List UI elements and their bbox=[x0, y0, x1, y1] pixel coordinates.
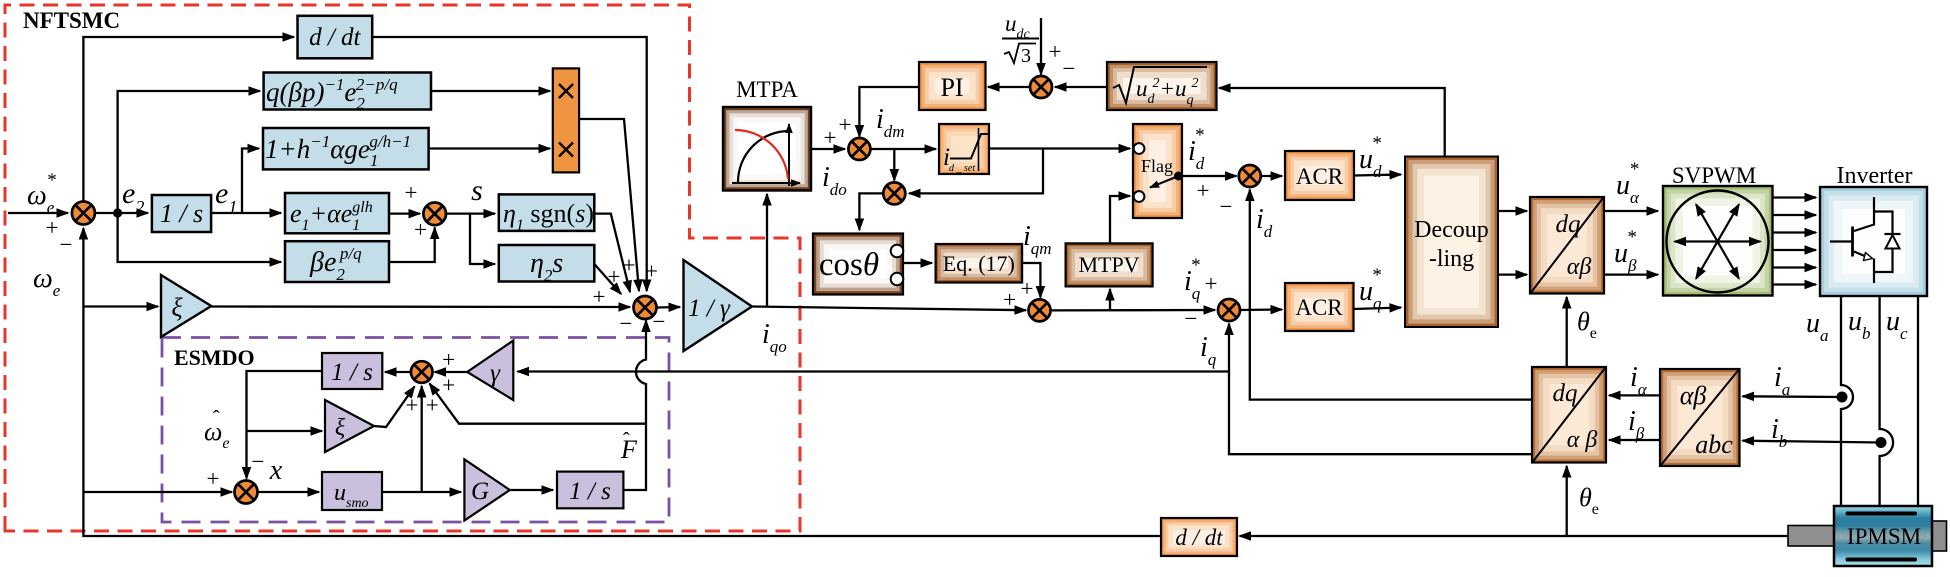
svg-text:ˆ: ˆ bbox=[213, 407, 220, 429]
block dq to alphabeta transform bbox=[1530, 197, 1604, 294]
svg-text:−: − bbox=[620, 311, 633, 336]
svg-text:MTPV: MTPV bbox=[1078, 252, 1139, 277]
svg-text:+: + bbox=[1049, 39, 1062, 64]
multiplier column (orange, two x) bbox=[553, 68, 579, 172]
svg-text:d / dt: d / dt bbox=[309, 24, 361, 51]
block Flag switch bbox=[1133, 124, 1182, 218]
svg-text:α β: α β bbox=[1567, 427, 1598, 453]
wire u_alpha* to SVPWM bbox=[1604, 210, 1658, 212]
SVPWM vector arrows 120deg bbox=[1696, 204, 1739, 278]
svg-text:−: − bbox=[1063, 56, 1076, 81]
wire MTPV output to Flag bottom contact bbox=[1110, 196, 1130, 243]
svg-text:−: − bbox=[1220, 194, 1233, 219]
wire q block output into multiplier bbox=[431, 90, 550, 92]
wire i_d junction to ACR d bbox=[1261, 175, 1282, 177]
svg-text:Flag: Flag bbox=[1141, 156, 1173, 176]
block Inverter bbox=[1820, 187, 1927, 296]
Flag output dot bbox=[1174, 172, 1183, 181]
wire beta block output up into s junction bbox=[389, 228, 435, 263]
svg-text:dq: dq bbox=[1556, 211, 1581, 238]
block IPMSM motor bbox=[1834, 506, 1932, 566]
wire i_qo output of 1/gamma (sloped) bbox=[752, 307, 1026, 311]
wire i_q junction to ACR q bbox=[1240, 308, 1282, 311]
svg-text:+: + bbox=[1205, 271, 1218, 296]
svg-text:+: + bbox=[414, 217, 427, 242]
svg-text:αβ: αβ bbox=[1567, 254, 1592, 280]
wire ESMDO junction output into 1/s bbox=[385, 371, 411, 373]
wire SVPWM gate signal 2 to inverter bbox=[1773, 214, 1817, 216]
summing junction i_q bbox=[1218, 299, 1240, 321]
summing junction x = omega_e - omega_hat bbox=[235, 481, 258, 504]
svg-text:ACR: ACR bbox=[1296, 164, 1344, 189]
wire omega_e* reference input bbox=[8, 212, 68, 214]
block PI bbox=[919, 62, 986, 110]
ESMDO purple dashed region border bbox=[162, 338, 669, 523]
wire theta_e up to lower dq transform bbox=[1566, 466, 1568, 536]
block beta e2^p/q bbox=[285, 241, 389, 282]
wire eta2 output to big summing junction bbox=[594, 264, 621, 294]
svg-text:ACR: ACR bbox=[1295, 295, 1343, 320]
gain xi triangle (NFTSMC, blue) bbox=[161, 275, 211, 337]
big summing junction control law bbox=[634, 296, 657, 319]
wire e1 to e1+alpha e1 block bbox=[211, 212, 281, 214]
block sqrt(ud^2+uq^2) bbox=[1107, 62, 1217, 110]
block d/dt speed derivative bbox=[1161, 518, 1237, 556]
wire F_hat branch into ESMDO junction bbox=[430, 384, 647, 424]
block eta2 s bbox=[499, 245, 595, 282]
inverter IGBT collector lead bbox=[1854, 197, 1874, 231]
wire phase u_b with current sensor bulge bbox=[1880, 296, 1894, 506]
wire e2 up-branch into q(bp) block bbox=[118, 91, 260, 213]
wire e1 block output into s junction bbox=[389, 212, 420, 214]
svg-text:ESMDO: ESMDO bbox=[174, 345, 255, 370]
sqrt 3 denominator bbox=[1004, 44, 1036, 64]
block ACR q-axis bbox=[1285, 283, 1354, 331]
cos theta upper contact circle bbox=[891, 245, 904, 258]
wire speed feedback bottom right segment bbox=[1240, 535, 1789, 537]
SVPWM circle bbox=[1667, 191, 1769, 293]
svg-text:−: − bbox=[1185, 306, 1198, 331]
block cos theta bbox=[813, 234, 903, 295]
block MTPA frame bbox=[723, 107, 811, 191]
IPMSM top bar bbox=[1848, 512, 1916, 516]
multiplier x symbol upper bbox=[559, 84, 573, 98]
MTPA inner horizontal axis bbox=[732, 182, 800, 184]
svg-text:ξ: ξ bbox=[171, 293, 183, 322]
svg-text:+: + bbox=[839, 112, 852, 137]
wire ACR q to decoupling bbox=[1354, 308, 1402, 310]
svg-text:ˆ: ˆ bbox=[623, 429, 630, 451]
svg-text:+: + bbox=[593, 284, 606, 309]
wire MTPA output to i_dm junction bbox=[811, 148, 845, 150]
wire 1+h block output into multiplier bbox=[429, 147, 550, 149]
current sensor dot i_b bbox=[1876, 437, 1887, 448]
gain G triangle bbox=[464, 459, 509, 520]
inverter diode triangle bbox=[1886, 235, 1900, 249]
wire omega_hat branch to xi gain bbox=[247, 430, 323, 432]
wire i_d feedback long bbox=[1250, 190, 1532, 400]
block q(beta p)^-1 e2^(2-p/q) bbox=[264, 73, 431, 110]
wire eta1 output to big summing junction bbox=[594, 214, 630, 292]
svg-text:d / dt: d / dt bbox=[1175, 525, 1223, 550]
wire sqrt output into dc junction bbox=[1055, 86, 1107, 88]
svg-text:NFTSMC: NFTSMC bbox=[23, 8, 120, 33]
svg-text:+: + bbox=[405, 180, 418, 205]
svg-text:Eq. (17): Eq. (17) bbox=[943, 251, 1015, 276]
summing junction i_d bbox=[1239, 165, 1261, 187]
MTPA inner vertical axis bbox=[788, 124, 790, 186]
svg-text:+: + bbox=[46, 215, 59, 240]
SVPWM vector arrows 60deg bbox=[1696, 204, 1739, 278]
wire dc junction into PI bbox=[988, 86, 1030, 88]
IPMSM shaft right bbox=[1932, 521, 1947, 551]
svg-text:x: x bbox=[269, 455, 283, 486]
IPMSM bottom bar bbox=[1848, 558, 1916, 562]
svg-text:αβ: αβ bbox=[1680, 381, 1707, 410]
svg-text:cosθ: cosθ bbox=[819, 247, 879, 283]
wire PI output down into i_dm junction bbox=[859, 87, 919, 137]
multiplier x symbol lower bbox=[559, 143, 573, 157]
block MTPV bbox=[1066, 243, 1153, 286]
wire SVPWM gate signal 1 to inverter bbox=[1773, 196, 1817, 198]
wire xi output to big summing junction bbox=[211, 305, 630, 308]
block eta1 sgn(s) bbox=[499, 194, 595, 231]
wire branch down-left into multiplier junction bbox=[909, 149, 1043, 194]
saturation curve glyph bbox=[950, 134, 988, 159]
wire i_b to alphabeta-abc block bbox=[1743, 441, 1882, 443]
block Eq. (17) bbox=[936, 244, 1023, 283]
svg-text:MTPA: MTPA bbox=[736, 77, 798, 102]
summing junction Js forming sliding surface s bbox=[423, 203, 446, 226]
wire phase u_c bbox=[1917, 296, 1919, 506]
wire xi obs output diagonal into ESMDO junction bbox=[374, 387, 415, 428]
wire F_hat up to big junction with hop over gamma line bbox=[623, 321, 646, 491]
svg-text:+: + bbox=[623, 253, 636, 278]
wire i_qm junction to i_q* junction bbox=[1051, 309, 1216, 312]
wire s to eta1 sgn block bbox=[446, 212, 495, 214]
svg-text:+: + bbox=[1197, 178, 1210, 203]
wire multiplier output to big summing junction bbox=[579, 119, 639, 291]
svg-text:d _ set: d _ set bbox=[949, 163, 975, 174]
wire G output to integrator 1/s bbox=[510, 489, 553, 491]
wire omega_hat from 1/s down to x junction bbox=[247, 371, 323, 479]
block 1+h^-1 alpha g e1^(g/h-1) bbox=[263, 128, 429, 169]
wire d/dt output to big summing junction bbox=[372, 37, 647, 291]
block observer integrator 1/s (bottom) bbox=[557, 472, 623, 509]
wire e1 branch up into 1+h block bbox=[242, 149, 259, 214]
diagonal of measurement dq block bbox=[1533, 368, 1605, 462]
block SVPWM bbox=[1663, 186, 1773, 296]
wire u voltage tap from decoupling to sqrt block bbox=[1219, 88, 1445, 156]
inverter IGBT emitter diagonal bbox=[1854, 252, 1867, 258]
svg-text:1 / s: 1 / s bbox=[331, 359, 373, 386]
wire e2 down-branch into beta e2 block bbox=[118, 213, 281, 262]
svg-text:+: + bbox=[1003, 287, 1016, 312]
saturation axis glyph bbox=[978, 128, 980, 171]
svg-text:+: + bbox=[426, 393, 439, 418]
gain 1/gamma triangle bbox=[684, 260, 753, 351]
Flag switch arm bbox=[1150, 176, 1179, 188]
wire J1 up to d/dt block bbox=[83, 37, 294, 202]
ESMDO summing junction bbox=[411, 361, 433, 383]
wire i_a to alphabeta-abc block bbox=[1743, 395, 1843, 398]
diagonal of dq/alphabeta block bbox=[1531, 198, 1603, 293]
wire SVPWM gate signal 6 to inverter bbox=[1773, 283, 1817, 285]
wire branch up into MTPV bbox=[1109, 289, 1111, 310]
svg-text:Inverter: Inverter bbox=[1837, 163, 1913, 189]
wire i_alpha into dq block bbox=[1609, 394, 1660, 396]
wire i_q feedback into gamma gain bbox=[518, 370, 1230, 372]
cos theta lower contact circle bbox=[891, 273, 904, 286]
svg-text:-ling: -ling bbox=[1429, 246, 1474, 272]
wire i_beta into dq block bbox=[1609, 439, 1660, 441]
inverter IGBT gate lead bbox=[1830, 240, 1853, 242]
inverter IGBT bar bbox=[1851, 227, 1854, 257]
fraction bar of u_dc/sqrt3 bbox=[1002, 38, 1039, 40]
inverter IGBT emitter arrowhead bbox=[1864, 253, 1873, 261]
summing junction dc voltage limit bbox=[1030, 76, 1052, 98]
SVPWM vector arrows horizontal bbox=[1675, 240, 1761, 242]
svg-text:1 / γ: 1 / γ bbox=[688, 295, 731, 322]
wire branch down into multiplier junction bbox=[893, 149, 895, 181]
current sensor dot i_a bbox=[1837, 392, 1848, 403]
block integrator 1/s (NFTSMC) bbox=[152, 195, 211, 232]
wire theta_e up to upper dq transform bbox=[1566, 297, 1568, 369]
Flag top contact circle bbox=[1134, 143, 1145, 154]
wire saturation output to Flag top contact bbox=[989, 147, 1130, 149]
block u_smo bbox=[322, 472, 382, 510]
svg-text:abc: abc bbox=[1695, 430, 1733, 459]
svg-text:+: + bbox=[824, 125, 837, 150]
svg-text:ξ: ξ bbox=[335, 415, 346, 441]
diagonal of alphabeta/abc block bbox=[1661, 370, 1739, 465]
block e1+alpha e1^glh bbox=[285, 193, 389, 233]
gain xi triangle (ESMDO) bbox=[325, 400, 374, 452]
wire big junction to 1/gamma gain bbox=[657, 306, 681, 309]
inverter IGBT emitter lead bbox=[1873, 259, 1875, 284]
Flag bottom contact circle bbox=[1134, 191, 1145, 202]
wire SVPWM gate signal 5 to inverter bbox=[1773, 266, 1817, 268]
svg-text:SVPWM: SVPWM bbox=[1672, 163, 1756, 188]
wire SVPWM gate signal 4 to inverter bbox=[1773, 249, 1817, 251]
wire i_dm junction to saturation block bbox=[870, 148, 936, 150]
block alphabeta to abc transform bbox=[1660, 369, 1740, 466]
wire decoupling to dq upper (d) bbox=[1498, 210, 1527, 212]
inverter diode bottom connection bbox=[1874, 249, 1893, 273]
svg-text:1 / s: 1 / s bbox=[569, 478, 611, 505]
inverter diode top connection bbox=[1874, 212, 1893, 234]
svg-text:+: + bbox=[1021, 276, 1034, 301]
summing junction J1 omega_e* minus omega_e bbox=[72, 202, 95, 225]
svg-text:G: G bbox=[471, 478, 489, 505]
svg-text:+: + bbox=[645, 259, 658, 284]
wire speed feedback bottom left segment and up to summing junction J1 bbox=[83, 228, 1161, 536]
radical sign of sqrt block bbox=[1113, 67, 1207, 103]
wire ACR d to decoupling bbox=[1354, 175, 1401, 176]
block ACR d-axis bbox=[1285, 151, 1354, 200]
wire s branch to eta2 s block bbox=[470, 214, 495, 264]
wire multiplier junction output into cos theta bbox=[859, 193, 883, 230]
svg-text:−: − bbox=[60, 232, 73, 257]
svg-text:−: − bbox=[252, 449, 265, 474]
svg-text:γ: γ bbox=[490, 360, 501, 387]
block observer integrator 1/s (top) bbox=[322, 353, 382, 389]
wire u_dc limit down into junction bbox=[1040, 18, 1042, 75]
wire branch up into MTPA block bbox=[766, 194, 768, 307]
wire omega_e to ESMDO error junction bbox=[83, 491, 232, 493]
wire phase u_a with current sensor bulge bbox=[1841, 296, 1853, 506]
svg-text:+: + bbox=[608, 264, 621, 289]
wire u_smo branch up into ESMDO junction bbox=[421, 386, 423, 492]
block Decoupling bbox=[1405, 157, 1498, 328]
MTPA black curve bbox=[738, 131, 789, 182]
wire u_smo output to G gain bbox=[382, 491, 461, 493]
svg-text:1 / s: 1 / s bbox=[160, 199, 203, 228]
svg-text:Decoup: Decoup bbox=[1414, 217, 1489, 243]
block i_d_set saturation bbox=[939, 124, 989, 174]
svg-text:+: + bbox=[442, 347, 455, 372]
svg-text:s: s bbox=[471, 174, 483, 207]
wire Eq output down into i_qm junction bbox=[1022, 263, 1040, 298]
svg-text:+: + bbox=[442, 373, 455, 398]
gain gamma triangle (ESMDO, points left) bbox=[467, 341, 513, 401]
svg-text:IPMSM: IPMSM bbox=[1847, 524, 1921, 549]
wire cos theta output to Eq block bbox=[903, 262, 932, 264]
NFTSMC red dashed region border bbox=[5, 5, 800, 531]
wire i_q feedback long bbox=[1229, 324, 1532, 455]
wire omega_e to ESMDO gain xi bbox=[83, 305, 158, 307]
multiplier junction i_dm x flag bbox=[883, 182, 905, 204]
wire SVPWM gate signal 3 to inverter bbox=[1773, 231, 1817, 233]
wire e2 node to 1/s integrator bbox=[95, 212, 148, 214]
wire x to u_smo block bbox=[258, 491, 320, 493]
svg-text:PI: PI bbox=[940, 73, 963, 102]
wire u_beta* to SVPWM bbox=[1604, 273, 1658, 275]
MTPA red curve bbox=[735, 130, 788, 179]
svg-text:dq: dq bbox=[1553, 380, 1578, 407]
block d/dt (NFTSMC) bbox=[298, 16, 373, 59]
svg-text:3: 3 bbox=[1021, 45, 1031, 67]
block dq from alphabeta transform (measurement) bbox=[1532, 367, 1606, 463]
wire decoupling to dq upper (q) bbox=[1498, 273, 1527, 275]
wire gamma output into ESMDO junction bbox=[435, 371, 468, 373]
IPMSM shaft left bbox=[1788, 526, 1835, 547]
svg-text:+: + bbox=[207, 466, 220, 491]
inverter diode cathode bar bbox=[1885, 233, 1901, 235]
summing junction i_dm bbox=[848, 138, 870, 160]
node e2 junction dot bbox=[113, 208, 122, 217]
wire Flag output to i_d junction bbox=[1183, 175, 1237, 177]
summing junction i_qm bbox=[1029, 299, 1051, 321]
